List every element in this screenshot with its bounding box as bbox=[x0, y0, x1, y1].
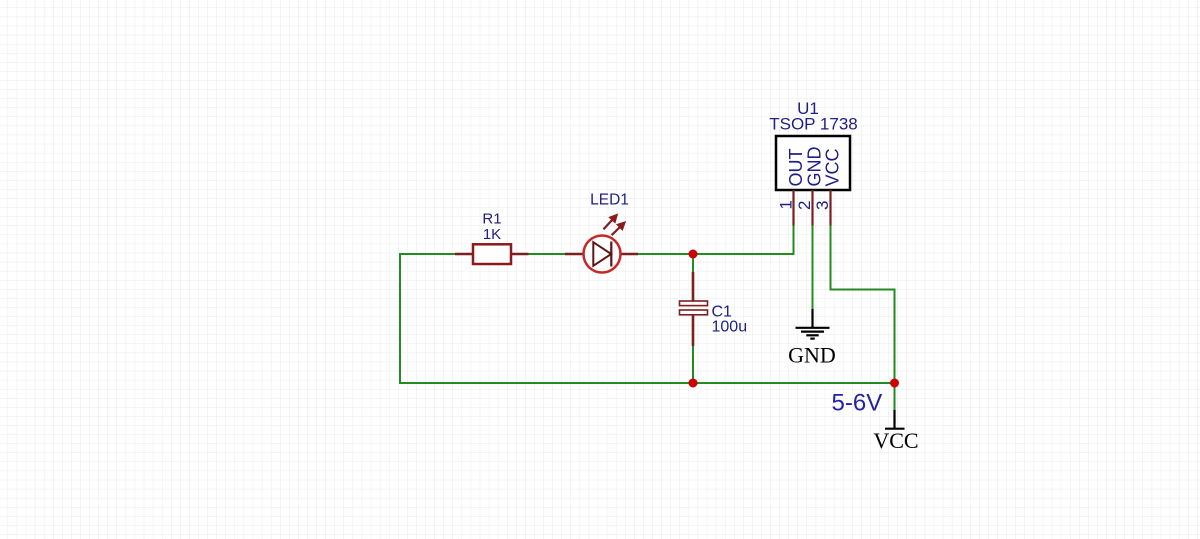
svg-text:GND: GND bbox=[788, 343, 836, 368]
resistor R1 bbox=[455, 244, 529, 264]
pin 3 stub bbox=[829, 190, 831, 226]
svg-text:R1: R1 bbox=[482, 211, 501, 228]
svg-text:VCC: VCC bbox=[822, 148, 842, 186]
svg-text:1K: 1K bbox=[483, 226, 501, 243]
svg-text:2: 2 bbox=[795, 201, 814, 210]
svg-text:3: 3 bbox=[813, 201, 832, 210]
wire: pin3 to VCC rail bbox=[831, 226, 895, 411]
svg-text:100u: 100u bbox=[712, 319, 748, 336]
vcc symbol bbox=[885, 410, 905, 429]
wire: main loop (pin1 down, top wire, left side, bottom wire) bbox=[400, 226, 895, 384]
junction node at VCC rail bbox=[890, 379, 899, 388]
svg-text:1: 1 bbox=[777, 200, 796, 209]
LED LED1 bbox=[565, 215, 638, 273]
capacitor C1 bbox=[680, 272, 708, 346]
svg-text:5-6V: 5-6V bbox=[832, 390, 883, 417]
wire: capacitor branch bbox=[692, 254, 694, 274]
wire: capacitor branch lower bbox=[692, 344, 694, 383]
svg-text:TSOP 1738: TSOP 1738 bbox=[769, 115, 858, 134]
pin 2 stub bbox=[811, 190, 813, 226]
svg-text:OUT: OUT bbox=[786, 149, 806, 187]
pin 1 stub bbox=[792, 190, 794, 226]
svg-text:LED1: LED1 bbox=[590, 192, 629, 209]
wire: pin2 to ground bbox=[812, 226, 814, 310]
op IC U1 body bbox=[776, 136, 850, 190]
junction node at LED/C1 top bbox=[689, 250, 698, 259]
ground symbol bbox=[796, 309, 830, 339]
junction node at C1 bottom bbox=[689, 379, 698, 388]
svg-text:VCC: VCC bbox=[873, 428, 918, 453]
